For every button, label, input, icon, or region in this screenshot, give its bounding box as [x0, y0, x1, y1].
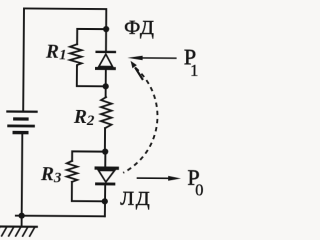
svg-text:1: 1: [59, 47, 67, 63]
svg-text:R: R: [45, 42, 59, 63]
svg-text:0: 0: [195, 180, 203, 199]
svg-text:2: 2: [86, 113, 95, 129]
svg-text:R: R: [73, 107, 87, 128]
svg-text:1: 1: [190, 61, 198, 80]
svg-text:3: 3: [53, 170, 62, 186]
svg-text:R: R: [40, 164, 54, 185]
svg-text:ЛД: ЛД: [120, 188, 151, 210]
svg-text:ФД: ФД: [124, 17, 156, 39]
